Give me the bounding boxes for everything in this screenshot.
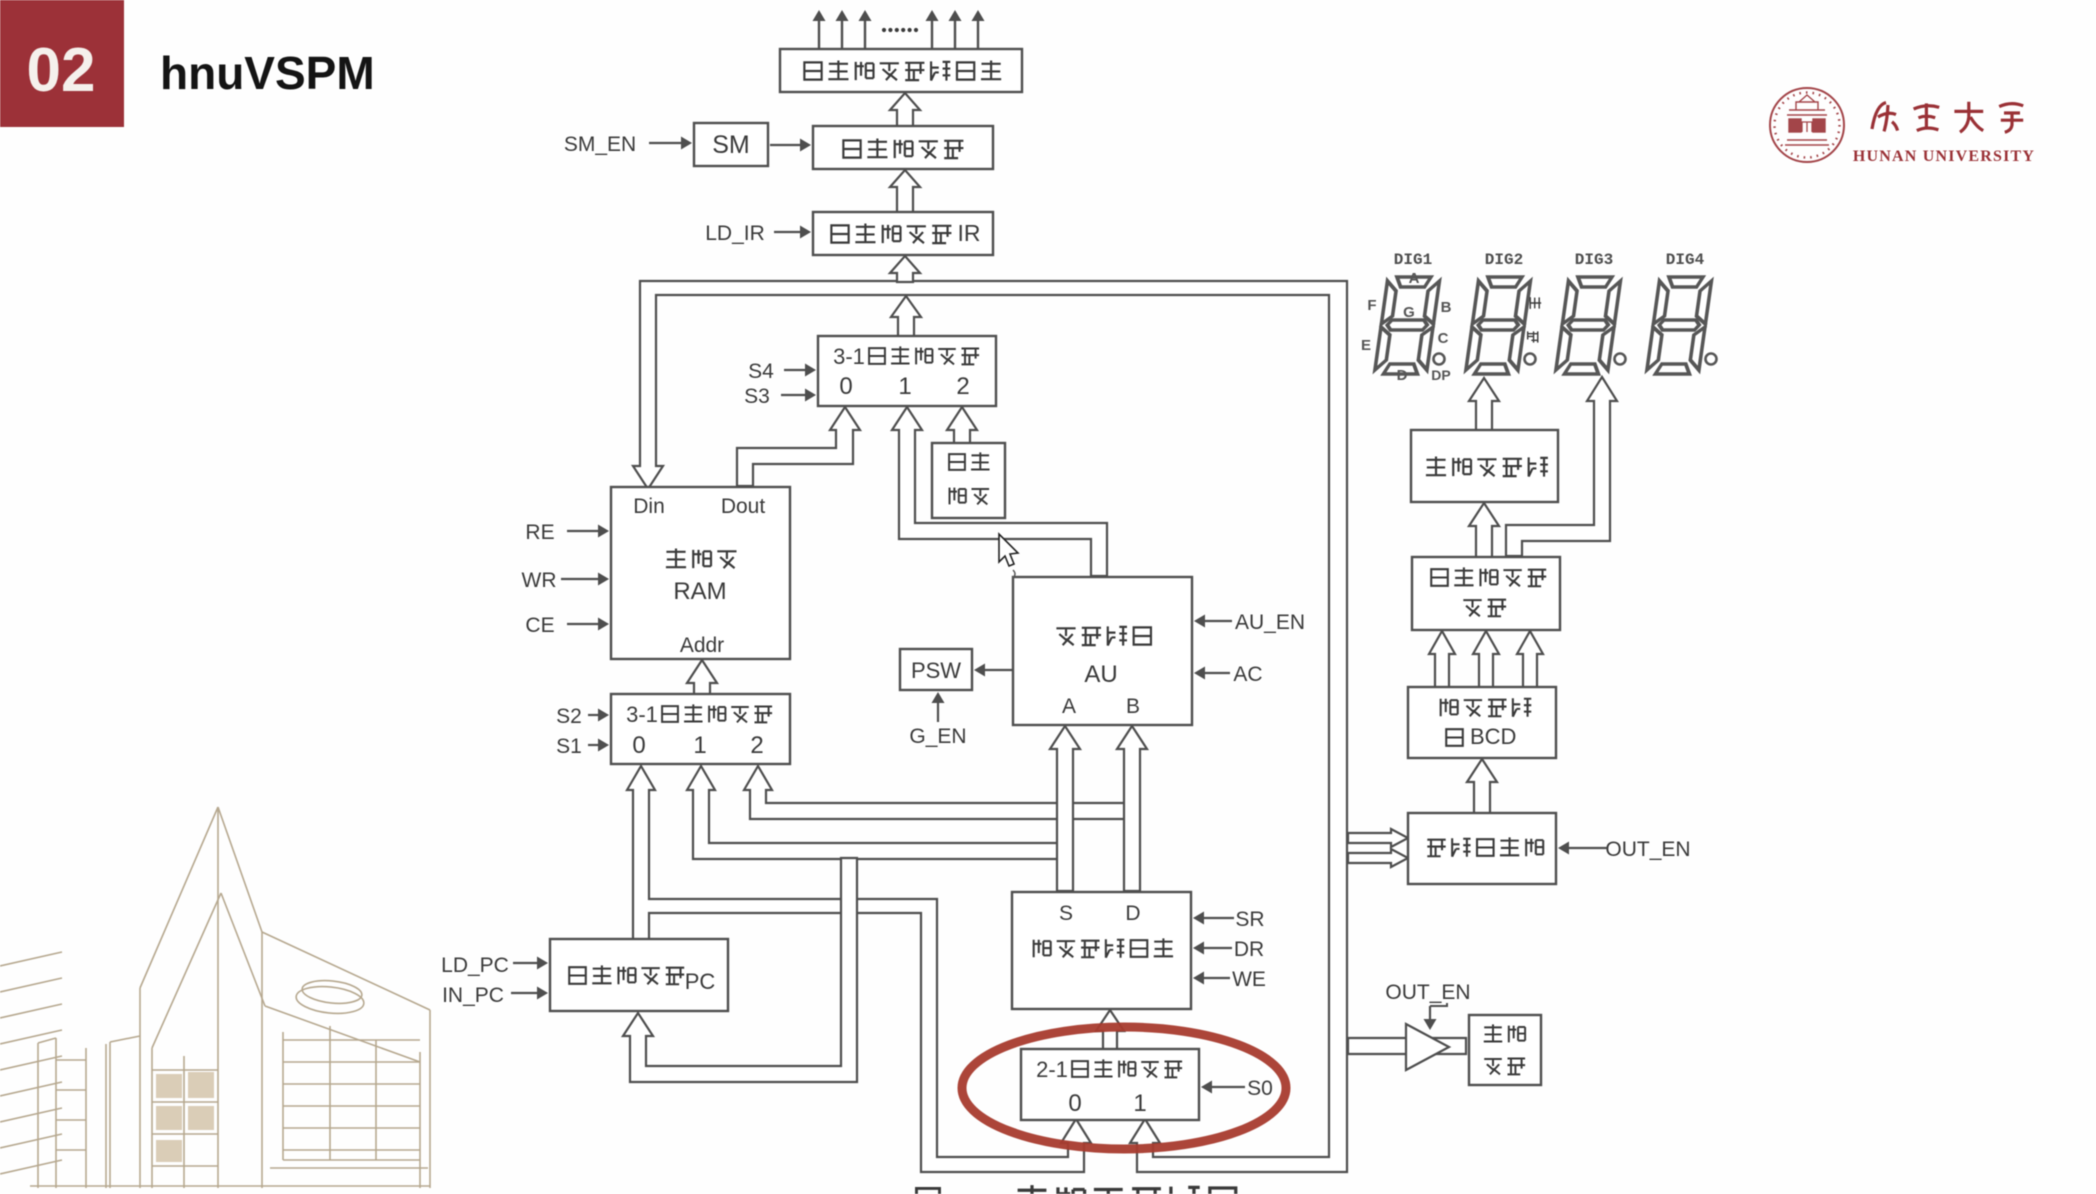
wire regfile D to mux2 input2 xyxy=(744,766,1128,819)
annotation ellipse xyxy=(962,1027,1286,1149)
label OUT_EN output buffer xyxy=(1385,981,1470,1030)
label SR xyxy=(1193,908,1265,931)
svg-text:Dout: Dout xyxy=(721,495,766,518)
svg-text:1: 1 xyxy=(898,373,911,400)
wire input device to mux1 input2 xyxy=(947,407,977,444)
svg-text:D: D xyxy=(1125,902,1140,925)
wire RAM Dout to mux1 input0 xyxy=(737,407,860,486)
svg-text:AC: AC xyxy=(1233,663,1262,686)
seven segment display DIG3 xyxy=(1555,277,1625,374)
svg-text:A: A xyxy=(1062,695,1076,718)
label LD_IR xyxy=(705,222,811,245)
block input device xyxy=(932,443,1005,518)
label DR xyxy=(1193,938,1264,961)
label AC xyxy=(1194,663,1263,686)
seven segment display DIG4 xyxy=(1646,277,1716,374)
svg-text:RAM: RAM xyxy=(673,578,726,605)
DIG2 side marks xyxy=(1528,297,1541,342)
wire regfile S to mux2 input1 xyxy=(687,766,1060,859)
wire BCD to select 1 xyxy=(1429,631,1455,688)
svg-text:E: E xyxy=(1361,337,1371,354)
label CE xyxy=(525,614,609,637)
wire 2-1 mux to regfile xyxy=(1096,1010,1124,1050)
wire regfile S to PC input xyxy=(623,858,857,1082)
block mux1 3-1 xyxy=(818,336,996,406)
wire bus to output buffer xyxy=(1348,1038,1466,1054)
logo calligraphy xyxy=(1872,102,2023,132)
wire bus to data register b xyxy=(1348,849,1408,867)
svg-text:DIG1: DIG1 xyxy=(1394,251,1432,269)
tri-state output buffer xyxy=(1406,1024,1449,1070)
svg-text:PC: PC xyxy=(685,969,716,994)
label S0 xyxy=(1201,1077,1273,1100)
logo wordmark xyxy=(1853,148,2035,165)
label RE xyxy=(525,521,609,544)
svg-text:LD_PC: LD_PC xyxy=(441,954,509,977)
wire AU to mux1 input1 xyxy=(892,407,1107,576)
label WE xyxy=(1193,968,1266,991)
block instruction decoder xyxy=(813,126,993,169)
wire BCD to select 2 xyxy=(1473,631,1499,688)
wire data register to BCD xyxy=(1467,759,1497,814)
svg-text:CE: CE xyxy=(525,614,554,637)
svg-text:0: 0 xyxy=(632,732,645,759)
svg-text:DR: DR xyxy=(1234,938,1264,961)
seven segment display DIG2 xyxy=(1465,277,1535,374)
label IN_PC xyxy=(442,984,548,1007)
title hnuVSPM xyxy=(160,47,375,99)
svg-text:A: A xyxy=(1409,270,1420,287)
block register file xyxy=(1012,892,1191,1009)
arrow AU to PSW xyxy=(974,664,1012,677)
label WR xyxy=(522,569,610,592)
svg-text:2: 2 xyxy=(750,732,763,759)
block binary to BCD xyxy=(1408,687,1556,758)
svg-text:G_EN: G_EN xyxy=(909,725,966,748)
label S1 xyxy=(556,735,609,758)
label AU_EN xyxy=(1194,611,1305,634)
wire mux1 to bus xyxy=(891,296,921,337)
svg-text:3-1: 3-1 xyxy=(626,702,658,727)
wire select to 7seg decoder xyxy=(1469,503,1499,558)
svg-text:D: D xyxy=(1397,367,1408,384)
svg-text:S: S xyxy=(1059,902,1073,925)
label DIG2 xyxy=(1485,251,1523,269)
svg-text:OUT_EN: OUT_EN xyxy=(1605,838,1690,861)
label OUT_EN data register xyxy=(1558,838,1691,861)
svg-text:C: C xyxy=(1438,330,1449,347)
wire bus to IR xyxy=(890,256,920,282)
svg-text:RE: RE xyxy=(525,521,554,544)
svg-text:AU_EN: AU_EN xyxy=(1235,611,1305,634)
control outputs arrows xyxy=(813,10,985,49)
svg-text:SM: SM xyxy=(712,131,750,159)
wire select to DIG3 xyxy=(1506,377,1617,556)
block control signal logic xyxy=(780,49,1022,92)
svg-text:DIG2: DIG2 xyxy=(1485,251,1523,269)
block output device xyxy=(1469,1015,1541,1085)
svg-text:BCD: BCD xyxy=(1470,724,1516,749)
svg-text:3-1: 3-1 xyxy=(833,344,865,369)
svg-text:0: 0 xyxy=(1068,1090,1081,1117)
svg-text:S2: S2 xyxy=(556,705,582,728)
svg-text:WE: WE xyxy=(1232,968,1266,991)
svg-text:G: G xyxy=(1403,304,1415,321)
wire 7seg decoder to DIG2 xyxy=(1469,378,1499,431)
block bit and data select xyxy=(1412,557,1560,630)
block SM xyxy=(694,123,768,166)
svg-text:Addr: Addr xyxy=(680,634,724,657)
block AU xyxy=(1013,577,1192,725)
svg-text:HUNAN UNIVERSITY: HUNAN UNIVERSITY xyxy=(1853,148,2035,165)
svg-text:2: 2 xyxy=(956,373,969,400)
label LD_PC xyxy=(441,954,548,977)
svg-text:1: 1 xyxy=(1133,1090,1146,1117)
block instruction register IR xyxy=(813,212,993,255)
block mux2 3-1 xyxy=(611,694,790,764)
svg-text:S0: S0 xyxy=(1247,1077,1273,1100)
svg-text:AU: AU xyxy=(1084,661,1117,688)
mouse cursor xyxy=(999,534,1018,578)
label DIG3 xyxy=(1575,251,1613,269)
wire regfile D to AU B xyxy=(1117,726,1147,891)
seven segment display DIG1 xyxy=(1374,277,1444,374)
wire BCD to select 3 xyxy=(1517,631,1543,688)
slide number badge 02 xyxy=(0,0,124,127)
wire regfile S to AU A xyxy=(1050,726,1080,891)
svg-text:1: 1 xyxy=(693,732,706,759)
svg-text:IN_PC: IN_PC xyxy=(442,984,504,1007)
svg-text:WR: WR xyxy=(522,569,557,592)
block 7seg decoder xyxy=(1411,430,1558,502)
block PSW xyxy=(900,649,972,690)
block PC xyxy=(550,939,728,1011)
block mux3 2-1 xyxy=(1021,1049,1199,1120)
label S2 xyxy=(556,705,609,728)
svg-text:hnuVSPM: hnuVSPM xyxy=(160,47,375,99)
svg-text:0: 0 xyxy=(839,373,852,400)
wire mux2 to RAM Addr xyxy=(687,660,717,695)
svg-text:S3: S3 xyxy=(744,385,770,408)
svg-text:2-1: 2-1 xyxy=(1036,1057,1068,1082)
label S3 xyxy=(744,385,816,408)
svg-text:OUT_EN: OUT_EN xyxy=(1385,981,1470,1004)
svg-text:F: F xyxy=(1367,297,1376,314)
block data register xyxy=(1408,813,1556,884)
svg-text:DIG3: DIG3 xyxy=(1575,251,1613,269)
svg-text:LD_IR: LD_IR xyxy=(705,222,765,245)
label DIG4 xyxy=(1666,251,1705,269)
DIG1 segment letters xyxy=(1361,270,1452,384)
wire main data bus xyxy=(633,281,1347,1172)
svg-text:S1: S1 xyxy=(556,735,582,758)
svg-text:02: 02 xyxy=(27,36,96,105)
svg-text:SR: SR xyxy=(1235,908,1264,931)
label G_EN xyxy=(909,692,966,748)
svg-text:IR: IR xyxy=(958,220,981,246)
arrow SM to decoder xyxy=(770,139,811,152)
caption figure title xyxy=(916,1185,1235,1194)
svg-text:S4: S4 xyxy=(748,360,774,383)
label S4 xyxy=(748,360,816,383)
svg-text:DP: DP xyxy=(1431,367,1450,383)
svg-text:SM_EN: SM_EN xyxy=(564,133,636,156)
wire bus to data register a xyxy=(1348,829,1408,847)
wire IR to decoder xyxy=(890,170,920,213)
svg-text:DIG4: DIG4 xyxy=(1666,251,1705,269)
svg-text:B: B xyxy=(1441,299,1452,316)
svg-text:B: B xyxy=(1126,695,1140,718)
wire decoder to control logic xyxy=(890,93,920,127)
wire PC to mux2 input0 and 2-1 mux input0 xyxy=(627,766,1091,1172)
logo seal xyxy=(1770,88,1844,162)
svg-text:Din: Din xyxy=(633,495,665,518)
label DIG1 xyxy=(1394,251,1432,269)
building sketch xyxy=(0,807,430,1188)
label SM_EN xyxy=(564,133,692,156)
block RAM xyxy=(611,487,790,659)
svg-text:PSW: PSW xyxy=(911,658,961,683)
